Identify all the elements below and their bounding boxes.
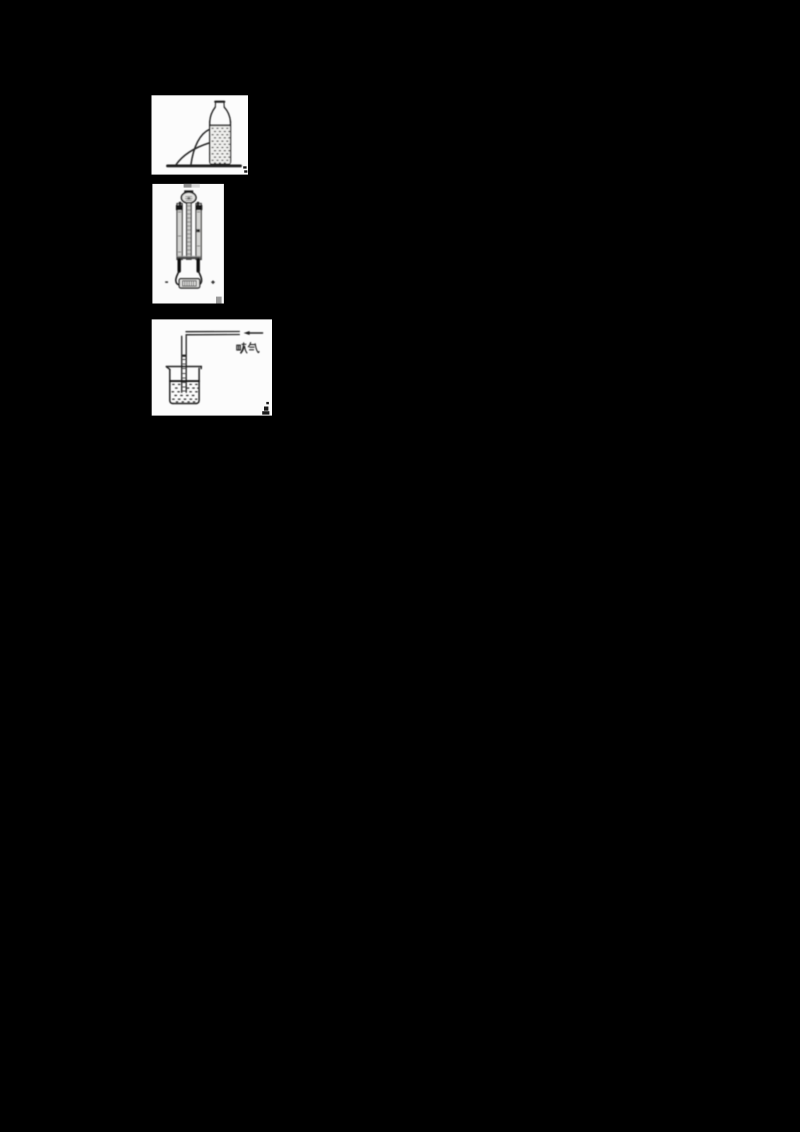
water body tint in bottle (211, 126, 230, 163)
battery box (179, 279, 200, 288)
texture inside straw (183, 360, 186, 392)
water surface in beaker (170, 380, 199, 382)
minus terminal label (165, 281, 168, 283)
bottle body (210, 122, 231, 164)
left wire to battery (176, 271, 179, 285)
centre tube graduation texture (188, 206, 191, 254)
funnel bulb U0 (181, 192, 196, 203)
upper water jet (191, 129, 210, 164)
horizontal straw lower wall (186, 334, 239, 336)
ground line (168, 164, 241, 167)
left electrode (177, 260, 180, 271)
gray artifact block bottom right of panel 2 (216, 297, 222, 304)
horizontal straw upper wall (186, 331, 239, 333)
left gas tube (177, 204, 182, 260)
battery cell plates (183, 281, 197, 286)
bottle cap (215, 101, 224, 103)
beaker right rim tick (200, 367, 202, 369)
right stopcock (197, 202, 199, 206)
dark core inside funnel (187, 197, 190, 199)
left stopcock (179, 202, 181, 206)
lower water jet (176, 143, 209, 165)
beaker bottom (173, 403, 196, 405)
jpeg artifact marks right of ground line (243, 166, 247, 172)
white panel 2 (152, 184, 224, 304)
beaker rim (166, 366, 201, 368)
centre feed tube (187, 203, 192, 259)
beaker spout (167, 367, 171, 370)
white panel 3 (152, 319, 272, 415)
right tube interior marks (197, 212, 200, 246)
water plug inside straw (182, 355, 185, 357)
liquid marks inside funnel (185, 196, 193, 200)
water surface line in bottle (210, 124, 230, 126)
label chui (blow) character (237, 343, 247, 353)
jpeg artifact marks bottom right of panel 3 (262, 402, 269, 415)
white panel 1 (152, 95, 249, 174)
gray artifact block top center (184, 184, 192, 188)
dark mark in right tube (197, 229, 200, 232)
right electrode (196, 260, 199, 271)
label qi (air) character (248, 343, 259, 353)
right wire to battery (198, 271, 201, 285)
vertical straw left wall (181, 336, 183, 392)
manifold crossbar (177, 257, 200, 259)
right gas tube (196, 204, 201, 260)
plus terminal label (211, 281, 214, 284)
bottle neck and shoulder (210, 107, 215, 122)
water texture in bottle (211, 128, 230, 164)
beaker right wall (196, 368, 199, 403)
beaker left wall (170, 369, 173, 403)
blow arrow (249, 332, 263, 334)
vertical straw right wall (185, 336, 187, 392)
water texture in beaker (171, 384, 199, 403)
left tube interior marks (178, 212, 181, 252)
gray artifact block top right (192, 184, 200, 188)
funnel rim dark band (184, 190, 193, 193)
